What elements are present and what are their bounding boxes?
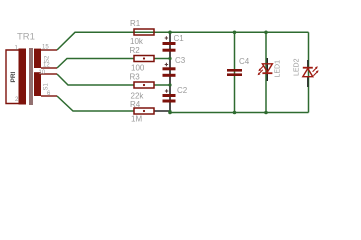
wire: right edge vertical — [308, 32, 310, 112]
secondary winding S1 bar — [34, 72, 41, 96]
svg-text:R1: R1 — [130, 19, 141, 28]
LED2 cathode bar — [303, 67, 313, 69]
wire: transformer pin 10 to R3 left lead — [57, 74, 134, 85]
svg-text:C2: C2 — [177, 86, 188, 95]
wire: transformer pin 6 to R4 left lead — [57, 96, 134, 111]
resistor R1 — [130, 19, 154, 46]
pin 10 stub — [41, 73, 57, 75]
plus marker C1 — [165, 36, 168, 39]
svg-text:10k: 10k — [130, 37, 144, 46]
svg-text:1M: 1M — [131, 115, 142, 124]
LED2 emission arrows — [313, 68, 317, 76]
plus marker C2 — [165, 89, 168, 92]
LED1 triangle — [262, 64, 272, 72]
wire: transformer pin 12 to R2 left lead — [57, 59, 134, 69]
capacitor C4 — [227, 57, 250, 76]
svg-text:R2: R2 — [130, 46, 141, 55]
junction: R4 lead into cap chain — [168, 110, 171, 113]
svg-text:10: 10 — [39, 70, 46, 76]
junction: bottom rail at LED1 column — [264, 111, 268, 115]
capacitor C2 (polarized) — [163, 86, 188, 103]
LED LED2 (cathode up) — [294, 58, 319, 87]
wire: C4 column vertical — [234, 32, 236, 112]
wire: R2 right lead to capacitor chain node — [154, 58, 170, 60]
plus marker C3 — [165, 63, 168, 66]
LED LED1 (cathode down) — [258, 58, 282, 81]
svg-text:PRI: PRI — [10, 71, 17, 82]
junction: top rail at C4 column — [233, 31, 237, 35]
core line left — [29, 48, 31, 105]
svg-text:2: 2 — [15, 97, 19, 103]
pin 15 stub — [41, 49, 57, 51]
svg-text:12: 12 — [43, 63, 50, 69]
pin 6 stub — [41, 95, 57, 97]
svg-text:R4: R4 — [130, 100, 141, 109]
resistor R3 — [130, 73, 155, 101]
wire: bottom rail — [170, 112, 309, 114]
capacitor C3 (polarized) — [163, 56, 186, 77]
resistor R4 — [130, 100, 154, 124]
junction: top rail at LED1 column — [264, 31, 268, 35]
core line right — [31, 48, 33, 105]
svg-text:LED2: LED2 — [294, 58, 301, 76]
LED1 cathode bar — [262, 72, 272, 74]
junction: top rail at cap chain — [168, 31, 172, 35]
primary winding bar — [19, 49, 27, 105]
secondary winding S2 bar — [34, 49, 41, 68]
LED1 emission arrows — [259, 66, 263, 74]
resistor R2 — [130, 46, 155, 73]
capacitor C1 (polarized) — [163, 34, 185, 52]
primary loop wire — [6, 50, 19, 104]
junction: R2 lead into cap chain — [168, 57, 171, 60]
junction: bottom rail at cap chain — [168, 111, 172, 115]
wire: R3 right lead to capacitor chain node — [154, 84, 170, 86]
LED2 triangle — [303, 69, 313, 77]
svg-text:C1: C1 — [174, 34, 185, 43]
svg-text:LED1: LED1 — [275, 60, 282, 78]
svg-text:C3: C3 — [175, 56, 186, 65]
wire: R4 right lead (dark) to bottom node — [154, 110, 170, 112]
svg-text:R3: R3 — [130, 73, 141, 82]
transformer TR1 — [6, 32, 57, 106]
wire: LED1 column vertical — [265, 32, 267, 112]
svg-text:C4: C4 — [239, 57, 250, 66]
wire: capacitor chain vertical C1-C3-C2 (dark) — [169, 32, 171, 112]
LED2 pins (dark) — [307, 60, 309, 87]
junction: R3 lead into cap chain — [168, 83, 171, 86]
svg-text:15: 15 — [42, 45, 49, 51]
svg-text:TR1: TR1 — [17, 32, 35, 43]
LED1 pin (dark) — [266, 58, 268, 81]
svg-text:S1: S1 — [44, 82, 50, 90]
svg-text:100: 100 — [131, 64, 145, 73]
junction: bottom rail at C4 column — [233, 111, 237, 115]
pin 12 stub — [41, 67, 57, 69]
wire: top rail from transformer pin 15 through R1 to top-right corner — [57, 32, 309, 50]
